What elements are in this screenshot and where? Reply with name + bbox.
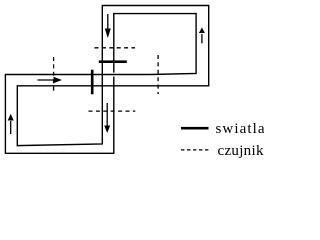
sensor dashed line D4 (horizontal, lower-right corridor) bbox=[89, 110, 136, 112]
arrow A4 down (lower-right corridor) bbox=[104, 103, 110, 133]
road ring 1 (upper-right loop outline, closed self-crossing polyline) bbox=[17, 6, 208, 146]
sensor dashed line D1 (horizontal, upper-left corridor) bbox=[95, 47, 136, 49]
arrow A2 up (right corridor) bbox=[199, 28, 205, 44]
sensor dashed line D3 (vertical, right of crossing) bbox=[157, 55, 159, 94]
road ring 2 (lower-left loop outline, closed self-crossing polyline, small gap in right vertical at crossing) bbox=[5, 14, 196, 154]
legend label czujnik bbox=[218, 143, 264, 160]
legend label swiatla bbox=[216, 121, 266, 138]
arrow A5 right (middle horizontal corridor) bbox=[38, 77, 63, 83]
traffic light bar B2 (vertical, across middle horizontal corridor) bbox=[91, 70, 94, 95]
sensor dashed line D2 (vertical, left of crossing) bbox=[53, 57, 55, 93]
legend sensor dashed sample bbox=[181, 149, 210, 151]
arrow A1 down (upper left corridor) bbox=[105, 14, 111, 38]
arrow A3 up (lower-left corridor) bbox=[8, 114, 14, 134]
legend light bar sample bbox=[181, 127, 209, 130]
traffic light bar B1 (horizontal, across upper-left corridor) bbox=[99, 60, 127, 63]
